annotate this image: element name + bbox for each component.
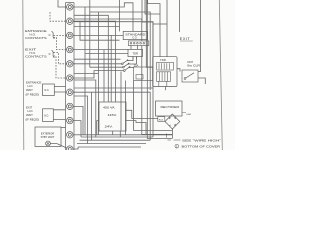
svg-text:BOTTOM OF COVER: BOTTOM OF COVER bbox=[182, 145, 222, 149]
wire connector stub 2 bbox=[136, 46, 138, 50]
wire unit switch output bbox=[198, 78, 205, 84]
entrance wait switch box bbox=[43, 84, 55, 96]
relay contact K1 bbox=[121, 60, 128, 65]
svg-text:STBY WAIT: STBY WAIT bbox=[41, 135, 55, 139]
svg-text:EXIT: EXIT bbox=[180, 37, 191, 41]
wire T8 fan to bus bbox=[73, 106, 83, 134]
wire TDR2 to unit switch box bbox=[177, 69, 180, 72]
wire run y80 to bus bbox=[74, 80, 96, 137]
transformer primary winding bbox=[100, 110, 102, 112]
relay contact K2 bbox=[122, 63, 129, 68]
transformer T1 box bbox=[99, 102, 126, 131]
wire transformer right pin to rectifier bbox=[126, 110, 158, 118]
note text bottom right bbox=[167, 134, 222, 149]
svg-text:N.O.: N.O. bbox=[44, 115, 49, 117]
wire bus line 1 bbox=[83, 134, 172, 136]
wire T7 to rectifier drop bbox=[73, 92, 150, 140]
exterior wait box bbox=[35, 127, 61, 147]
wire bus line 4 bbox=[77, 143, 146, 145]
wire dashed entrance contacts to TB1-4 bbox=[54, 38, 67, 50]
wire run y12 to x150.2 bbox=[98, 12, 150, 90]
switch lever bbox=[184, 78, 186, 80]
TDR2 contact block bbox=[157, 62, 174, 70]
wire long vertical x147.3 bbox=[147, 0, 172, 138]
wire band run y59.2 bbox=[74, 58, 120, 60]
exit H.O. wait label bbox=[26, 106, 40, 122]
svg-text:C.O.: C.O. bbox=[132, 37, 137, 40]
wire transformer left pin drop bbox=[97, 121, 99, 135]
wire long run y21.7 bbox=[74, 22, 153, 137]
svg-text:ENTRANCE: ENTRANCE bbox=[25, 29, 47, 33]
svg-text:N.O.: N.O. bbox=[45, 90, 50, 92]
wire pushbutton lead bbox=[50, 144, 67, 149]
wire bus line 5 bbox=[78, 146, 141, 148]
entrance H.O. wait label bbox=[26, 81, 42, 97]
unit switch box bbox=[182, 70, 198, 82]
TDR1 pin 5 bbox=[136, 57, 138, 59]
brace entrance contacts bbox=[49, 32, 55, 39]
wire TDR2 coil pin bbox=[165, 87, 167, 91]
pushbutton symbol bbox=[46, 141, 51, 146]
svg-text:WAIT: WAIT bbox=[26, 113, 33, 117]
wire contact common drop bbox=[120, 72, 122, 131]
right border bbox=[219, 0, 222, 150]
wire connector stub 1 bbox=[130, 46, 132, 50]
wire cascade C top right bbox=[148, 0, 160, 57]
pin 4 bbox=[140, 42, 142, 44]
exit wait switch box bbox=[43, 109, 54, 122]
terminal TB1-2 bbox=[67, 18, 73, 24]
note circled 2 bbox=[175, 144, 179, 148]
svg-text:(IF REQ'D): (IF REQ'D) bbox=[26, 118, 40, 122]
wire bus line 2 bbox=[81, 136, 153, 138]
wire run y96 to bus bbox=[74, 96, 87, 144]
small component in grouping box bbox=[136, 75, 143, 80]
svg-text:SEE "WIRE HIGH": SEE "WIRE HIGH" bbox=[182, 138, 221, 142]
transformer bottom winding bbox=[99, 129, 101, 131]
note leader bracket bbox=[167, 134, 181, 141]
wire T10 fan to bus bbox=[73, 134, 83, 136]
wire vertical x200.6 to unit box bbox=[198, 0, 201, 72]
exit H.O. contacts label bbox=[25, 48, 47, 59]
wire bus line 3 bbox=[80, 139, 151, 141]
wire branch from T7 run to bus bbox=[91, 92, 93, 140]
svg-text:RECTIFIER: RECTIFIER bbox=[161, 105, 180, 109]
TDR relay TDR2 assembly box bbox=[153, 57, 177, 87]
terminal strip TB1 outline bbox=[66, 3, 75, 151]
svg-text:EXTERIOR: EXTERIOR bbox=[41, 131, 54, 135]
wire run y26.5 bbox=[74, 26, 119, 28]
terminal TB1-11 bbox=[67, 146, 73, 152]
pin 1 bbox=[130, 42, 132, 44]
brace exit contacts bbox=[49, 51, 55, 58]
TDR relay TDR1 box bbox=[128, 49, 143, 58]
rectifier box bbox=[156, 101, 183, 116]
exit label underline bbox=[180, 40, 193, 42]
wire T6 to contact K3 bbox=[73, 71, 123, 78]
red lead box bbox=[158, 117, 165, 122]
wire exit wait box leads bbox=[53, 110, 65, 120]
relay contact K3 bbox=[123, 67, 130, 72]
wire dashed exit contacts to TB1-6 bbox=[54, 56, 67, 78]
bridge rectifier diamond bbox=[165, 114, 180, 129]
wire dashed exit contacts to TB1-5 bbox=[54, 53, 67, 64]
wire T4 to TDR1 bbox=[73, 49, 128, 51]
wire contact K3 stub bbox=[129, 66, 134, 68]
wire T5 to contact K1 bbox=[73, 63, 121, 65]
svg-text:TDR: TDR bbox=[160, 58, 166, 62]
wire dashed feed to TB1-2 bbox=[50, 12, 67, 21]
wire connector pins to elbow bottom right bbox=[142, 46, 173, 135]
terminal TB1-10 bbox=[67, 132, 73, 138]
wire run y53.5 to TDR1 bbox=[85, 53, 128, 55]
wire T3 to standard box bbox=[73, 34, 123, 36]
wire cascade A top right bbox=[142, 0, 153, 57]
wire vertical x167 bbox=[166, 0, 168, 57]
svg-text:UNIT: UNIT bbox=[187, 60, 193, 64]
wire second run y88 bbox=[74, 87, 153, 89]
wire long run y19 bbox=[74, 19, 142, 41]
wire entrance wait box leads bbox=[54, 87, 65, 93]
transformer secondary winding bbox=[99, 120, 101, 122]
DB4 label bbox=[182, 112, 186, 114]
wire branch down from T4 run bbox=[103, 50, 105, 102]
entrance H.O. contacts label bbox=[25, 29, 47, 40]
svg-text:CONTACTS: CONTACTS bbox=[25, 36, 47, 40]
left border bbox=[23, 0, 24, 150]
terminal TB1-4 bbox=[67, 46, 73, 52]
wire contact K1 to TDR1 pin bbox=[127, 57, 133, 61]
grouping box right of contacts bbox=[134, 67, 153, 81]
wire grouping box second drop bbox=[125, 81, 127, 135]
wire transformer right secondary lead bbox=[126, 121, 146, 135]
terminal TB1-5 bbox=[67, 61, 73, 67]
wire corner x167 to x153 bbox=[153, 23, 167, 25]
wire long run y15.3 bbox=[74, 15, 108, 101]
wire vertical x179.6 bbox=[179, 0, 181, 32]
terminal TB1-7 bbox=[67, 89, 73, 95]
wire T11 fan to bus bbox=[73, 147, 78, 149]
svg-text:Sw CLR: Sw CLR bbox=[187, 64, 200, 68]
wire T1 to standard box via jog bbox=[73, 3, 133, 32]
svg-text:WAIT: WAIT bbox=[26, 88, 33, 92]
wire from top to standard box left bbox=[119, 0, 121, 31]
wire run y73.6 bbox=[74, 73, 98, 75]
wire dashed entrance contacts to TB1-3 bbox=[54, 34, 67, 36]
svg-text:115V.: 115V. bbox=[108, 113, 118, 117]
TDR1 pin 6 bbox=[132, 57, 134, 59]
wire contact K2 to TDR1 pin bbox=[128, 57, 137, 65]
terminal TB1-3 bbox=[67, 32, 73, 38]
wire T2 across bbox=[73, 21, 116, 102]
wire vertical x85 long bbox=[84, 7, 86, 135]
pin 3 bbox=[137, 42, 139, 44]
wire bridge bottom drop bbox=[171, 129, 173, 138]
pin 5 bbox=[143, 42, 145, 44]
TDR2 coil bbox=[157, 72, 171, 87]
terminal TB1-6 bbox=[67, 75, 73, 81]
svg-text:(IF REQ'D): (IF REQ'D) bbox=[26, 93, 40, 97]
wire riser and run y40.2 bbox=[80, 22, 120, 41]
wire branch down from T3 run bbox=[110, 35, 112, 101]
svg-text:450 VA.: 450 VA. bbox=[103, 105, 116, 109]
wire top feed to TB1-1 bbox=[58, 0, 67, 7]
wire exterior wait box top lead bbox=[61, 127, 66, 129]
svg-text:24V.: 24V. bbox=[105, 125, 114, 129]
wire from top into TDR2 left bbox=[146, 0, 152, 67]
wire grouping box drop to bus bbox=[134, 81, 173, 131]
terminal TB1-9 bbox=[67, 117, 73, 123]
terminal TB1-8 bbox=[67, 103, 73, 109]
wire cascade B top right to unit switch bbox=[145, 0, 160, 14]
terminal TB1-1 bbox=[67, 4, 73, 10]
svg-text:TDR: TDR bbox=[132, 51, 138, 55]
wire band to contact K2 bbox=[90, 12, 123, 67]
wire transformer bottom drop 2 bbox=[119, 131, 121, 137]
wire staircase from top at x89.8 bbox=[90, 0, 99, 135]
pin 2 bbox=[133, 42, 135, 44]
standard C.O. box bbox=[123, 31, 147, 39]
svg-text:CONTACTS: CONTACTS bbox=[25, 55, 47, 59]
wire T9 fan to bus bbox=[73, 121, 81, 137]
wire transformer bottom drop 1 bbox=[112, 131, 114, 135]
connector block under standard box bbox=[128, 41, 149, 46]
